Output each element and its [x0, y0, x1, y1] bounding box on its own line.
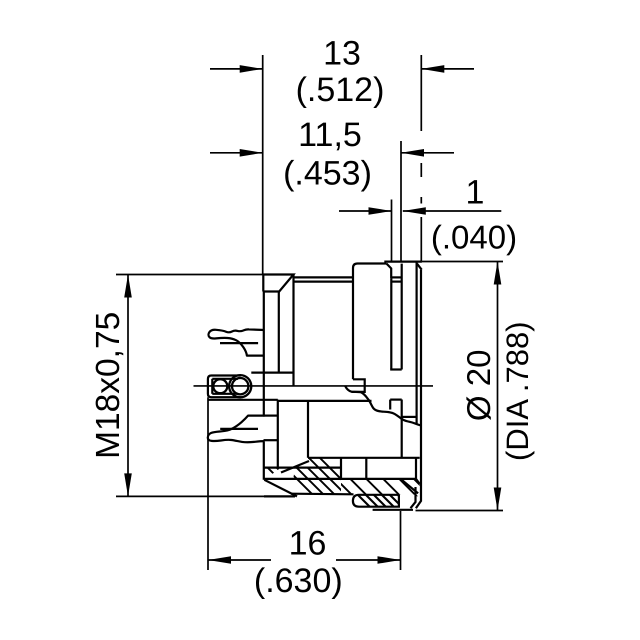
nut top edge right [308, 457, 420, 459]
body top key tab [263, 275, 293, 292]
barrel top double line upper [294, 276, 354, 278]
dimension 1 extension line left [391, 200, 393, 263]
body inner wall upper [278, 292, 280, 373]
through-wall hole line top [251, 372, 293, 374]
sleeve inner left [211, 379, 213, 394]
nut bottom edge [291, 493, 354, 496]
svg-text:(.040): (.040) [431, 219, 517, 256]
contact big circle inner [232, 378, 248, 394]
nut step vertical 2 [365, 458, 367, 479]
svg-text:16: 16 [289, 525, 327, 563]
dimension 16 dimension line with arrows [208, 559, 401, 561]
dimension 16 left extension line [207, 397, 209, 570]
nut lower right chamfer [416, 479, 420, 484]
dimension M18x0,75 dimension line with arrows [127, 275, 129, 497]
mid lower horizontal [208, 400, 372, 401]
dimension 13 arrow right [421, 68, 474, 70]
lower notch bottom segment [390, 399, 402, 401]
contact small circle [213, 379, 227, 393]
hatching chamfer band [322, 465, 456, 510]
nut bottom line long [264, 495, 295, 497]
dimension 13 extension line right (with gaps) [420, 55, 422, 262]
dimension Ø20 bottom extension line [416, 510, 504, 512]
lower contact slot line [220, 428, 258, 430]
top bump (raised collar) [353, 264, 386, 380]
svg-text:11,5: 11,5 [298, 116, 362, 154]
body left wall upper [263, 292, 265, 416]
dimension M18x0,75 bottom extension line [116, 495, 264, 497]
svg-text:(.453): (.453) [283, 155, 372, 193]
bump chamfer right [386, 264, 391, 279]
barrel front edge [292, 275, 294, 386]
dimension 11,5 arrow right [401, 152, 454, 154]
flange top chamfer [417, 264, 422, 270]
contact hole lower bottom edge [264, 439, 278, 441]
svg-text:1: 1 [466, 174, 485, 212]
nut top edge left [264, 467, 341, 469]
dimension 16 right extension line [400, 511, 402, 570]
upper contact slot line [220, 342, 258, 344]
flange back face [416, 270, 421, 509]
dimension 1 arrow left (outside) [339, 210, 392, 212]
svg-text:(.512): (.512) [296, 71, 385, 109]
break wavy line [345, 386, 421, 426]
dimension 13 extension line left [262, 55, 264, 275]
nut chamfer shallow line A [281, 461, 309, 473]
solder cup bottom (hatched cup) outline [353, 495, 399, 507]
svg-text:(DIA .788): (DIA .788) [500, 321, 535, 461]
dimension M18x0,75 top extension line [116, 274, 263, 276]
svg-text:M18x0,75: M18x0,75 [90, 312, 127, 459]
flange top edge [384, 261, 422, 263]
contact big circle outer [229, 375, 251, 397]
lower contact (wavy crimp tab) [208, 416, 265, 443]
nut left chamfer [264, 480, 297, 497]
upper contact (wavy crimp tab) [208, 329, 264, 355]
dimension 1 arrow right (outside) [403, 210, 502, 212]
nut right chamfer [401, 479, 419, 493]
lower step vertical [307, 401, 309, 458]
lower notch step [402, 416, 417, 418]
lower notch right vertical [401, 400, 403, 458]
svg-text:13: 13 [323, 35, 361, 73]
upper notch bottom [390, 368, 402, 370]
flange front lower segment [411, 487, 416, 508]
lower notch left vertical [389, 400, 391, 410]
svg-text:Ø 20: Ø 20 [460, 350, 497, 422]
flange front face [416, 262, 418, 424]
hatching solder cup [348, 485, 415, 512]
nut mid horizontal [264, 478, 416, 480]
centerline [194, 385, 434, 387]
nut step vertical 1 [340, 458, 342, 479]
upper notch band line 2 [391, 281, 401, 283]
upper notch band line 1 [391, 276, 401, 278]
hatching area left triangle [255, 455, 299, 490]
svg-text:(.630): (.630) [254, 562, 343, 600]
flange bottom edge [373, 509, 413, 511]
upper notch left line [390, 278, 392, 369]
dimension 11,5 extension line right [400, 141, 402, 262]
contact hole lower top edge [264, 415, 278, 417]
hook step below bump [352, 379, 365, 392]
body left wall lower [263, 442, 265, 480]
dimension Ø20 top extension line [422, 261, 503, 263]
sleeve inner line top [212, 378, 238, 380]
dimension 13 arrow left [210, 68, 263, 70]
hatching area left band [268, 450, 367, 505]
sleeve inner line bottom [212, 393, 238, 395]
dimension Ø20 dimension line with arrows [497, 262, 499, 511]
sleeve outer [208, 376, 241, 398]
nut corner vertical [415, 458, 417, 479]
body inner wall lower [277, 400, 279, 467]
dimension 11,5 arrow left [210, 152, 263, 154]
barrel top double line lower [294, 281, 354, 283]
upper notch right line [401, 264, 403, 370]
